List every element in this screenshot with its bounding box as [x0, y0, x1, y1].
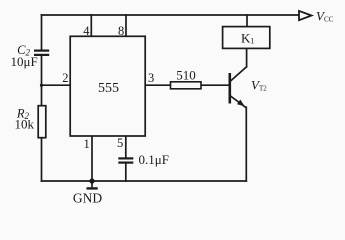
ground symbol	[87, 181, 98, 188]
transistor VT2 collector line	[231, 67, 247, 81]
wire left vertical upper segment (top rail to C2)	[41, 15, 43, 49]
resistor 510 body	[171, 82, 202, 89]
transistor VT2 base bar	[229, 73, 232, 104]
wire bottom rail (ground bus)	[42, 180, 247, 182]
node junction pin2 / C2 / R2	[40, 84, 43, 87]
svg-text:5: 5	[117, 136, 123, 150]
wire pin 5 upper segment to capacitor	[125, 136, 127, 158]
transistor VT2 emitter arrowhead	[237, 100, 245, 107]
svg-text:2: 2	[62, 71, 68, 85]
capacitor C2 plates	[34, 51, 49, 55]
svg-text:GND: GND	[73, 191, 102, 206]
transistor VT2 emitter line	[231, 96, 247, 108]
wire relay K1 to transistor collector	[246, 48, 248, 66]
node junction pin1 at ground	[89, 178, 94, 183]
wire top rail (Vcc bus)	[42, 14, 300, 16]
capacitor 0.1uF plates	[118, 158, 133, 162]
svg-text:1: 1	[84, 137, 90, 151]
svg-text:0.1μF: 0.1μF	[139, 152, 169, 167]
wire left vertical lower segment (C2 to bottom rail)	[41, 56, 43, 181]
svg-text:10k: 10k	[15, 117, 35, 132]
Vcc arrow (hollow triangle)	[299, 11, 312, 20]
relay K1 box	[223, 27, 270, 49]
wire resistor 510 to transistor base	[201, 84, 228, 86]
wire capacitor 0.1uF to bottom rail	[125, 163, 127, 181]
resistor R2 body	[38, 106, 46, 138]
wire pin 3 to resistor 510	[145, 84, 170, 86]
wire pin 8 to top rail	[125, 15, 127, 36]
svg-text:510: 510	[176, 68, 196, 83]
svg-text:4: 4	[83, 24, 90, 38]
wire pin 4 to top rail	[90, 15, 92, 36]
svg-text:555: 555	[98, 81, 119, 96]
wire pin 1 vertical to ground rail	[91, 136, 93, 181]
op-amp U1 555 timer box	[70, 36, 145, 136]
wire emitter vertical to bottom rail	[245, 107, 247, 181]
wire top rail to relay K1	[246, 15, 248, 27]
svg-text:10μF: 10μF	[11, 54, 38, 69]
svg-text:3: 3	[148, 71, 154, 85]
svg-text:8: 8	[118, 24, 124, 38]
wire pin 2 horizontal	[42, 84, 71, 86]
